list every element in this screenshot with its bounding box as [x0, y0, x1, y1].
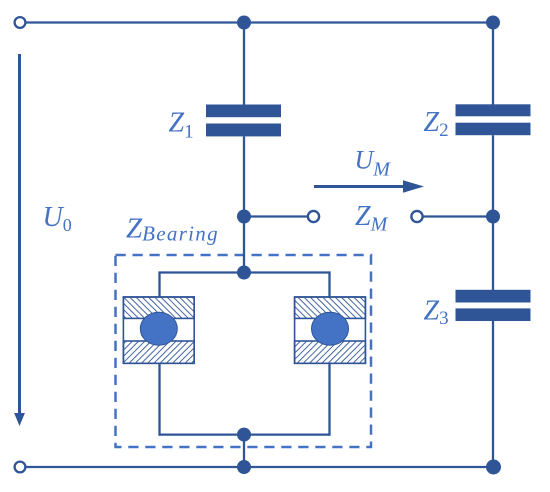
- junction node G (bearing bottom): [237, 428, 251, 442]
- svg-text:ZM: ZM: [355, 201, 389, 236]
- svg-text:Z1: Z1: [169, 107, 194, 142]
- junction node C (mid-left): [237, 210, 251, 224]
- wire: Z3 to node E: [492, 321, 494, 467]
- wire: left drop to bearing B1: [158, 271, 160, 297]
- terminal: Z_M left: [308, 211, 319, 222]
- wire: bearing B1 to bottom rail: [158, 363, 160, 435]
- junction node A (top, Z1 branch): [237, 16, 251, 30]
- arrow U0 (source voltage): [14, 54, 25, 426]
- junction node B (top-right, Z2 branch): [486, 16, 500, 30]
- capacitor Z2: [456, 104, 531, 135]
- bearing B1: [123, 297, 194, 363]
- bearing B2: [295, 297, 366, 363]
- junction node F (bearing top split): [237, 266, 251, 280]
- wire: node C to left measurement terminal: [244, 215, 308, 217]
- svg-text:ZBearing: ZBearing: [126, 213, 219, 246]
- capacitor Z3: [456, 290, 531, 321]
- wire: right measurement terminal to node D: [423, 215, 493, 217]
- box Z_Bearing (dashed outline): [116, 255, 372, 447]
- arrow U_M (measurement voltage): [314, 180, 424, 192]
- wire: node D down to capacitor Z3: [492, 217, 494, 291]
- wire: bottom bus from output terminal to node E: [20, 466, 493, 468]
- junction node D (mid-right): [486, 210, 500, 224]
- terminal: Z_M right: [411, 211, 422, 222]
- wire: Z2 to node D: [492, 135, 494, 216]
- wire: node G to bottom bus: [243, 435, 245, 467]
- wire: Z1 to node C: [243, 136, 245, 216]
- svg-text:Z3: Z3: [424, 296, 449, 330]
- capacitor Z1: [206, 105, 281, 137]
- junction node H (bottom bus, bearing branch): [237, 460, 251, 474]
- svg-text:U0: U0: [43, 202, 72, 235]
- wire: bearing top rail: [160, 271, 330, 273]
- wire: node B down to capacitor Z2: [492, 23, 494, 106]
- wire: bearing B2 to bottom rail: [328, 363, 330, 435]
- wire: top bus from input terminal to node B: [20, 21, 493, 23]
- wire: right drop to bearing B2: [328, 271, 330, 297]
- wire: node A down to capacitor Z1: [243, 23, 245, 106]
- terminal: top-left input: [15, 17, 26, 28]
- junction node E (bottom-right): [486, 460, 501, 475]
- wire: node C into bearing box: [243, 217, 245, 273]
- terminal: bottom-left input: [15, 462, 26, 473]
- svg-text:UM: UM: [355, 145, 392, 180]
- wire: bearing bottom rail: [160, 433, 330, 435]
- svg-text:Z2: Z2: [424, 107, 449, 141]
